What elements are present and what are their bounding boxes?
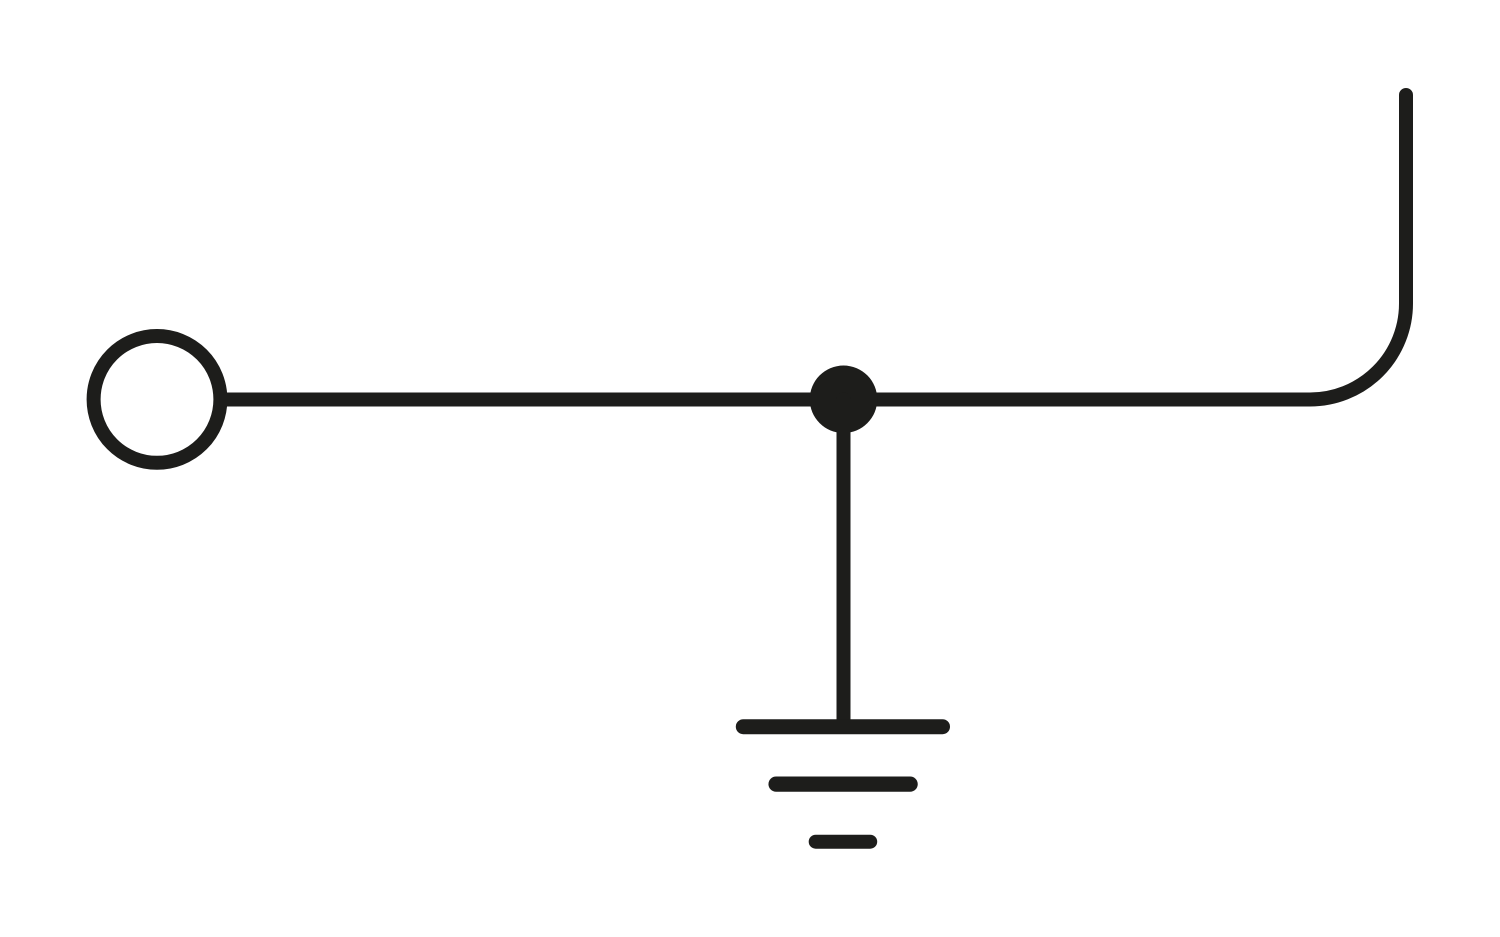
wire: junction down to ground [837,400,851,727]
junction node [810,366,878,434]
wire: junction right, curving up to top pin [844,95,1407,400]
ground [743,727,942,842]
wire: terminal to junction [220,393,844,407]
terminal T1 (open circle contact) [94,336,221,463]
